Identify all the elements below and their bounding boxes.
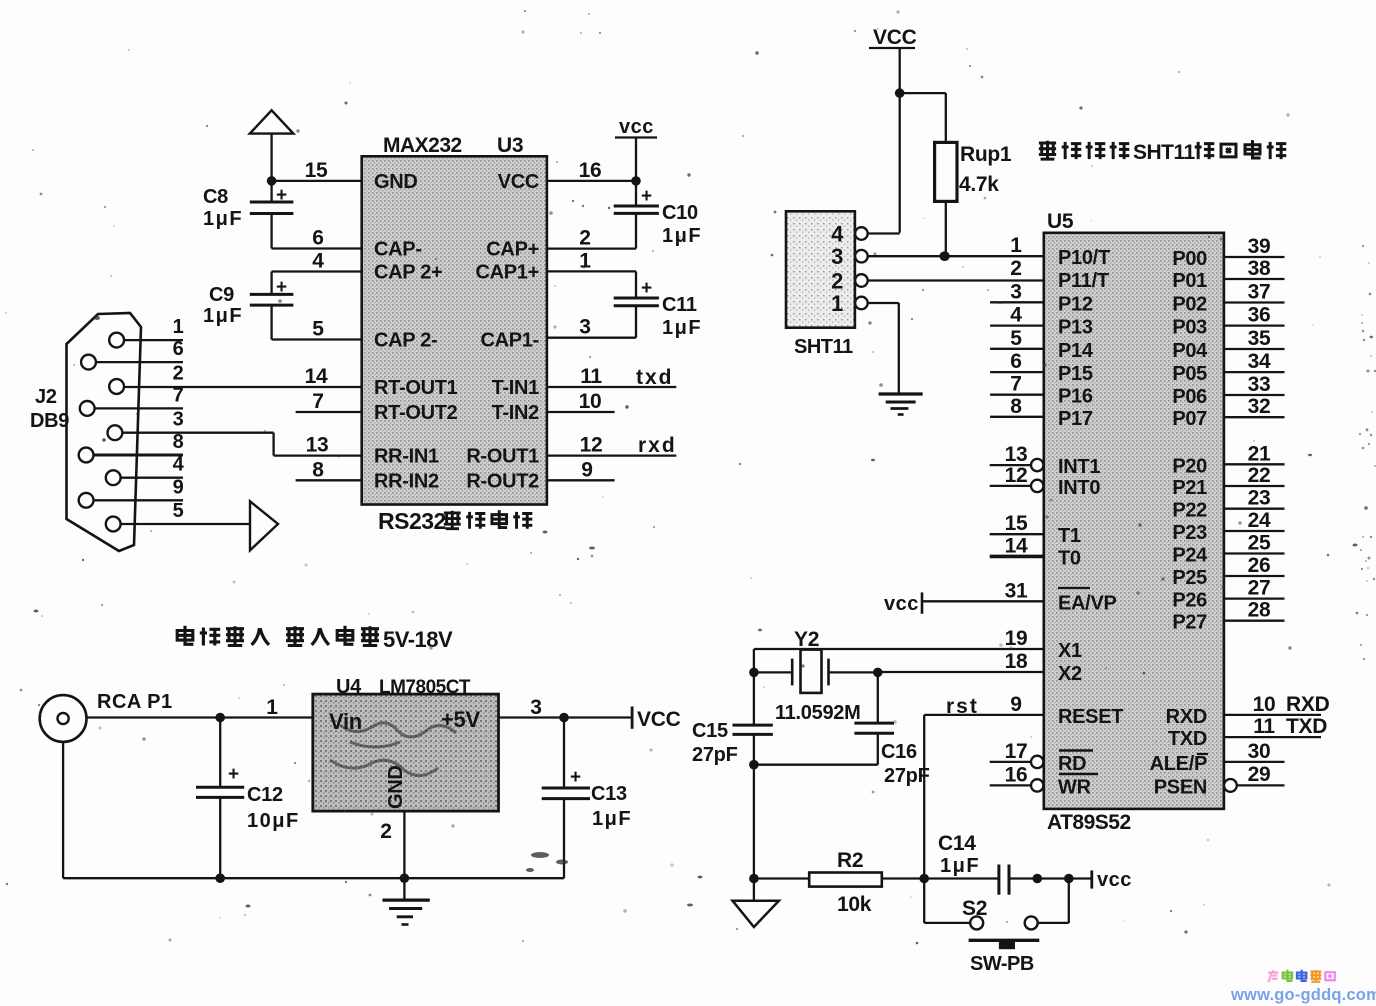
svg-text:+: + (570, 767, 581, 788)
svg-text:35: 35 (1248, 327, 1271, 350)
svg-text:EA/VP: EA/VP (1058, 592, 1117, 614)
svg-text:24: 24 (1248, 509, 1271, 532)
svg-text:RXD: RXD (1166, 706, 1207, 728)
svg-text:T1: T1 (1058, 525, 1081, 547)
svg-text:1μF: 1μF (203, 208, 243, 230)
svg-text:8: 8 (312, 458, 324, 481)
svg-text:Vin: Vin (329, 709, 362, 734)
svg-text:+: + (641, 186, 652, 207)
svg-text:P05: P05 (1172, 363, 1207, 385)
svg-text:P11/T: P11/T (1058, 270, 1109, 292)
svg-text:P06: P06 (1172, 386, 1207, 408)
svg-text:10: 10 (1253, 693, 1276, 716)
svg-text:26: 26 (1248, 554, 1271, 577)
svg-text:S2: S2 (962, 897, 987, 920)
svg-text:CAP1-: CAP1- (480, 330, 539, 352)
svg-text:12: 12 (580, 434, 603, 457)
svg-text:P10/T: P10/T (1058, 247, 1110, 269)
svg-text:TXD: TXD (1286, 715, 1327, 738)
svg-text:16: 16 (1005, 763, 1028, 786)
svg-text:6: 6 (1010, 350, 1021, 373)
svg-text:27pF: 27pF (692, 744, 738, 766)
svg-text:ALE/P: ALE/P (1150, 753, 1207, 775)
svg-text:2: 2 (173, 363, 184, 385)
svg-text:VCC: VCC (498, 171, 539, 193)
svg-text:GND: GND (385, 765, 407, 809)
svg-text:P25: P25 (1172, 567, 1207, 589)
svg-text:1μF: 1μF (940, 855, 980, 877)
svg-text:LM7805CT: LM7805CT (379, 677, 471, 698)
svg-text:15: 15 (1005, 512, 1028, 535)
svg-text:R-OUT2: R-OUT2 (466, 470, 539, 492)
svg-text:CAP-: CAP- (374, 239, 422, 261)
svg-text:MAX232: MAX232 (383, 134, 462, 157)
svg-text:10: 10 (579, 390, 602, 413)
svg-text:C16: C16 (881, 741, 917, 763)
svg-text:vcc: vcc (619, 116, 654, 138)
svg-text:C12: C12 (247, 784, 283, 806)
svg-text:VCC: VCC (637, 708, 681, 731)
svg-text:C9: C9 (209, 284, 234, 306)
svg-text:25: 25 (1248, 532, 1271, 555)
svg-text:3: 3 (173, 409, 184, 431)
svg-text:P01: P01 (1172, 270, 1207, 292)
svg-text:3: 3 (530, 696, 541, 719)
svg-text:P12: P12 (1058, 293, 1093, 315)
svg-text:5V-18V: 5V-18V (383, 627, 453, 652)
svg-text:RT-OUT2: RT-OUT2 (374, 402, 458, 424)
svg-text:RXD: RXD (1286, 693, 1330, 716)
svg-text:14: 14 (1005, 534, 1028, 557)
svg-text:33: 33 (1248, 373, 1271, 396)
svg-text:+: + (228, 764, 239, 785)
svg-text:P07: P07 (1172, 408, 1207, 430)
svg-text:INT1: INT1 (1058, 456, 1100, 478)
svg-text:SHT11: SHT11 (1133, 141, 1196, 164)
svg-text:1μF: 1μF (592, 808, 632, 830)
svg-text:13: 13 (1005, 443, 1028, 466)
svg-text:C15: C15 (692, 720, 728, 742)
svg-text:X1: X1 (1058, 640, 1082, 662)
svg-text:22: 22 (1248, 464, 1271, 487)
svg-text:9: 9 (581, 458, 592, 481)
svg-text:9: 9 (173, 476, 184, 498)
svg-text:29: 29 (1248, 763, 1271, 786)
svg-text:www.go-gddq.com: www.go-gddq.com (1230, 986, 1376, 1004)
svg-text:1μF: 1μF (203, 305, 243, 327)
svg-text:C10: C10 (662, 202, 698, 224)
svg-text:P24: P24 (1172, 545, 1208, 567)
svg-text:14: 14 (305, 365, 328, 388)
svg-text:10k: 10k (837, 893, 872, 916)
svg-text:RR-IN2: RR-IN2 (374, 470, 439, 492)
svg-text:3: 3 (831, 244, 843, 269)
svg-text:1: 1 (579, 249, 591, 272)
svg-text:27pF: 27pF (884, 765, 930, 787)
svg-text:1: 1 (1010, 234, 1022, 257)
svg-text:4: 4 (173, 454, 185, 476)
svg-text:GND: GND (374, 171, 418, 193)
svg-text:8: 8 (1010, 395, 1022, 418)
svg-text:U5: U5 (1047, 210, 1074, 233)
svg-text:Rup1: Rup1 (960, 143, 1012, 166)
svg-text:12: 12 (1005, 464, 1028, 487)
svg-text:rxd: rxd (638, 434, 677, 457)
svg-text:+: + (276, 185, 287, 206)
svg-text:7: 7 (1010, 373, 1021, 396)
svg-text:1: 1 (831, 291, 843, 316)
svg-text:P23: P23 (1172, 522, 1207, 544)
svg-text:2: 2 (579, 227, 590, 250)
svg-text:23: 23 (1248, 487, 1271, 510)
svg-text:6: 6 (312, 227, 323, 250)
svg-text:21: 21 (1248, 442, 1271, 465)
svg-text:vcc: vcc (884, 593, 919, 615)
svg-text:27: 27 (1248, 577, 1271, 600)
svg-text:txd: txd (636, 366, 674, 389)
svg-text:X2: X2 (1058, 663, 1082, 685)
svg-text:2: 2 (380, 820, 391, 843)
svg-text:5: 5 (173, 500, 184, 522)
svg-text:C8: C8 (203, 186, 228, 208)
svg-text:RCA P1: RCA P1 (97, 691, 173, 713)
svg-text:P21: P21 (1172, 477, 1207, 499)
svg-text:P20: P20 (1172, 455, 1207, 477)
svg-text:11.0592M: 11.0592M (775, 702, 860, 724)
svg-text:CAP+: CAP+ (486, 239, 539, 261)
svg-text:P03: P03 (1172, 317, 1207, 339)
svg-text:1μF: 1μF (662, 317, 702, 339)
svg-text:WR: WR (1058, 776, 1092, 798)
svg-text:34: 34 (1248, 350, 1271, 373)
svg-text:4: 4 (831, 222, 844, 247)
svg-text:P14: P14 (1058, 340, 1094, 362)
svg-text:RS232: RS232 (378, 508, 446, 534)
svg-text:SHT11: SHT11 (794, 336, 853, 358)
svg-text:9: 9 (1010, 693, 1021, 716)
svg-text:C14: C14 (938, 832, 976, 855)
svg-text:RESET: RESET (1058, 706, 1123, 728)
svg-text:28: 28 (1248, 599, 1271, 622)
svg-text:10μF: 10μF (247, 810, 300, 832)
svg-text:30: 30 (1248, 740, 1271, 763)
svg-text:39: 39 (1248, 235, 1271, 258)
svg-text:DB9: DB9 (30, 410, 69, 432)
svg-text:RT-OUT1: RT-OUT1 (374, 377, 458, 399)
svg-text:C11: C11 (662, 294, 697, 316)
svg-text:R-OUT1: R-OUT1 (466, 446, 539, 468)
svg-text:T0: T0 (1058, 547, 1081, 569)
svg-text:P27: P27 (1172, 612, 1207, 634)
svg-text:3: 3 (1010, 280, 1021, 303)
svg-text:TXD: TXD (1168, 728, 1207, 750)
svg-text:P15: P15 (1058, 363, 1093, 385)
svg-text:R2: R2 (837, 849, 863, 872)
svg-text:J2: J2 (35, 386, 57, 408)
svg-text:+: + (276, 277, 287, 298)
svg-text:2: 2 (1010, 257, 1021, 280)
svg-text:36: 36 (1248, 304, 1271, 327)
svg-text:P04: P04 (1172, 340, 1208, 362)
svg-text:11: 11 (580, 365, 602, 388)
svg-text:32: 32 (1248, 395, 1271, 418)
svg-text:vcc: vcc (1097, 869, 1132, 891)
svg-text:T-IN1: T-IN1 (492, 377, 540, 399)
svg-text:RD: RD (1058, 753, 1086, 775)
svg-text:U4: U4 (336, 676, 362, 698)
svg-text:19: 19 (1005, 627, 1028, 650)
svg-text:VCC: VCC (873, 26, 917, 49)
svg-text:P22: P22 (1172, 500, 1207, 522)
svg-text:1: 1 (173, 316, 184, 338)
svg-text:37: 37 (1248, 281, 1271, 304)
svg-text:5: 5 (1010, 327, 1022, 350)
svg-text:CAP 2+: CAP 2+ (374, 262, 442, 284)
svg-text:P17: P17 (1058, 408, 1093, 430)
svg-text:+5V: +5V (441, 707, 480, 732)
svg-text:13: 13 (306, 434, 329, 457)
svg-text:CAP 2-: CAP 2- (374, 330, 437, 352)
svg-text:PSEN: PSEN (1154, 776, 1207, 798)
svg-text:INT0: INT0 (1058, 477, 1100, 499)
svg-text:Y2: Y2 (794, 628, 819, 651)
svg-text:U3: U3 (497, 134, 523, 157)
svg-text:4.7k: 4.7k (959, 173, 999, 196)
svg-text:1μF: 1μF (662, 225, 702, 247)
svg-text:7: 7 (312, 390, 323, 413)
svg-text:+: + (641, 278, 652, 299)
svg-text:P13: P13 (1058, 317, 1093, 339)
svg-text:CAP1+: CAP1+ (475, 262, 539, 284)
svg-text:RR-IN1: RR-IN1 (374, 446, 439, 468)
svg-text:6: 6 (173, 338, 184, 360)
svg-text:38: 38 (1248, 257, 1271, 280)
svg-text:SW-PB: SW-PB (970, 953, 1034, 975)
svg-text:11: 11 (1253, 715, 1275, 738)
svg-text:3: 3 (579, 316, 590, 339)
svg-text:15: 15 (305, 159, 328, 182)
svg-text:AT89S52: AT89S52 (1047, 811, 1131, 834)
svg-text:P00: P00 (1172, 248, 1207, 270)
svg-text:8: 8 (173, 431, 184, 453)
svg-text:1: 1 (266, 696, 278, 719)
svg-text:rst: rst (946, 695, 979, 718)
svg-text:5: 5 (312, 318, 324, 341)
svg-text:16: 16 (579, 159, 602, 182)
svg-text:4: 4 (1010, 304, 1022, 327)
svg-text:P26: P26 (1172, 590, 1207, 612)
svg-text:17: 17 (1005, 740, 1028, 763)
svg-text:C13: C13 (591, 783, 627, 805)
svg-text:18: 18 (1005, 650, 1028, 673)
svg-text:P16: P16 (1058, 386, 1093, 408)
svg-text:2: 2 (831, 269, 843, 294)
svg-text:31: 31 (1005, 579, 1028, 602)
svg-text:T-IN2: T-IN2 (492, 402, 540, 424)
svg-text:4: 4 (312, 250, 324, 273)
